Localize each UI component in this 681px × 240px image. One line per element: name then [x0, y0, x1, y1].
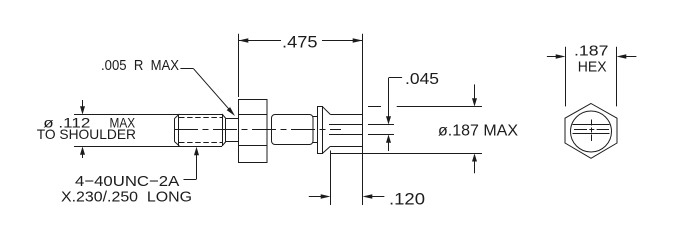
svg-text:X.230/.250 LONG: X.230/.250 LONG — [61, 188, 192, 205]
dim .187 HEX arrows — [547, 56, 557, 58]
svg-text:.120: .120 — [389, 189, 425, 208]
svg-text:.187: .187 — [574, 42, 608, 59]
end view slot chords — [573, 124, 610, 126]
dia .112 arrow bottom — [80, 147, 85, 155]
hex body side view — [239, 100, 268, 163]
dia .187 extension top — [368, 106, 381, 108]
svg-text:.005 R MAX: .005 R MAX — [101, 58, 179, 74]
dim .475 line — [239, 40, 281, 42]
dia .112 witness line bottom — [74, 146, 222, 148]
threaded stud 4-40UNC-2A outline — [178, 114, 180, 146]
svg-text:HEX: HEX — [578, 58, 607, 75]
neck / shoulder — [226, 118, 239, 120]
dim .045 leader — [389, 77, 402, 79]
svg-text:.475: .475 — [282, 33, 318, 52]
slotted prong bottom — [329, 134, 363, 136]
dia .112 witness line top — [74, 114, 222, 116]
svg-text:.045: .045 — [405, 71, 439, 88]
taper cone — [323, 107, 331, 115]
svg-text:4−40UNC−2A: 4−40UNC−2A — [75, 173, 179, 190]
dim .120 arrows — [309, 196, 321, 198]
thread minor dia dashed lines — [179, 117, 222, 119]
svg-text:TO SHOULDER: TO SHOULDER — [37, 126, 136, 142]
dim .475 extension left — [238, 34, 240, 97]
cylinder section — [272, 115, 314, 145]
end view center lines — [574, 129, 587, 131]
end view circle — [571, 111, 612, 152]
dim .045 witness lines — [368, 124, 394, 126]
leader 4-40UNC-2A — [194, 147, 199, 155]
end view hexagon — [565, 104, 617, 159]
dim .187 HEX extensions — [565, 47, 567, 107]
slotted prong top — [330, 114, 362, 116]
dia .112 arrow top — [80, 106, 85, 114]
center line (side view) — [174, 129, 341, 131]
dim .475 / .120 extension right + prong end — [362, 34, 364, 205]
groove stubs — [313, 116, 318, 118]
svg-text:ø.187 MAX: ø.187 MAX — [438, 123, 518, 140]
dia .187 arrows — [474, 84, 476, 99]
dia .187 extension bottom — [331, 153, 482, 155]
flange — [318, 107, 323, 154]
dim .120 extension left — [330, 151, 332, 206]
leader .005 R MAX — [180, 68, 193, 70]
